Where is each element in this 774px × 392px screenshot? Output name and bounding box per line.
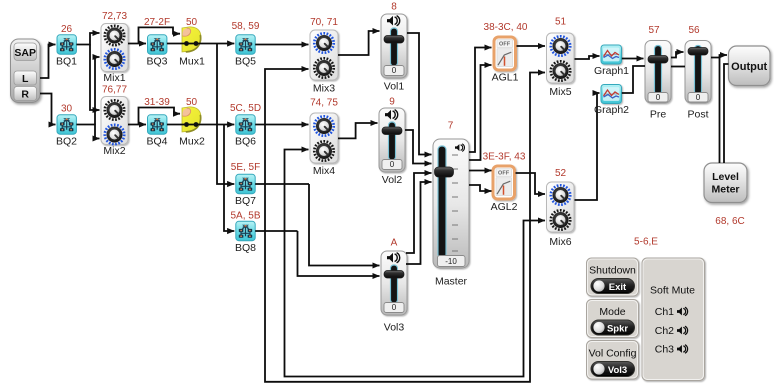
wire Pre to Post — [671, 52, 684, 58]
wire BQ8 out — [255, 230, 297, 232]
svg-text:68, 6C: 68, 6C — [715, 216, 744, 227]
wire Mix5 to Graph1 — [575, 56, 600, 59]
svg-text:Graph1: Graph1 — [594, 65, 629, 77]
svg-text:0: 0 — [696, 93, 701, 102]
wire BQ5 to Mix3 top — [255, 44, 308, 46]
svg-text:L: L — [22, 73, 29, 85]
svg-text:76,77: 76,77 — [102, 85, 127, 96]
wire BQ1 to Mix1 top — [76, 33, 99, 45]
svg-text:AGL2: AGL2 — [491, 201, 518, 213]
svg-text:72,73: 72,73 — [102, 11, 127, 22]
svg-text:Spkr: Spkr — [607, 323, 628, 334]
wire AGL1 to Mix5 top — [517, 45, 546, 47]
master slider Master — [433, 139, 469, 268]
mux Mux2 — [182, 107, 201, 132]
svg-text:50: 50 — [186, 17, 198, 28]
mixer Mix1 — [101, 24, 128, 72]
svg-text:Vol Config: Vol Config — [589, 348, 637, 360]
wire Mux1 branch down to BQ7 — [217, 44, 234, 185]
svg-text:74, 75: 74, 75 — [310, 98, 338, 109]
biquad BQ2 — [57, 115, 76, 134]
svg-text:30: 30 — [61, 104, 73, 115]
wire L to BQ1 — [40, 45, 56, 79]
svg-text:Meter: Meter — [711, 184, 739, 196]
wire BQ7 to Mix3 bottom — [265, 69, 309, 184]
slider Post — [685, 41, 711, 104]
svg-text:BQ7: BQ7 — [235, 195, 256, 207]
svg-text:Mux1: Mux1 — [179, 56, 205, 68]
svg-text:Mode: Mode — [599, 306, 625, 318]
wire Mix4 to Vol2 — [338, 123, 378, 138]
mixer Mix6 — [547, 182, 575, 232]
wire Mix1 bypass to Mux1 — [139, 27, 181, 43]
svg-text:Shutdown: Shutdown — [589, 265, 636, 277]
control panel Shutdown group — [587, 258, 639, 296]
svg-text:0: 0 — [656, 93, 661, 102]
biquad BQ7 — [236, 174, 255, 193]
graph block Graph1 — [601, 45, 622, 64]
svg-text:Graph2: Graph2 — [594, 104, 629, 116]
input selector group SAP/L/R — [11, 39, 41, 103]
wire Master to AGL1 lower — [469, 65, 492, 160]
junction dot Mux2 b — [194, 122, 199, 127]
svg-text:Vol3: Vol3 — [608, 365, 627, 376]
graph block Graph2 — [601, 85, 622, 104]
svg-text:BQ2: BQ2 — [56, 136, 77, 148]
junction dot Mux1 a — [184, 41, 189, 46]
svg-text:Output: Output — [731, 61, 767, 73]
wire Post to Output — [711, 55, 727, 58]
wire Mix2 to BQ4 — [128, 124, 146, 126]
svg-text:Vol2: Vol2 — [382, 174, 403, 186]
wire Master to AGL2 lower — [469, 185, 492, 191]
volume slider Vol1 — [381, 14, 407, 78]
wire Mix3 to Vol1 — [338, 31, 380, 55]
wire BQ4 through Mux2 to BQ6 — [167, 124, 234, 126]
wire Vol2 to Master — [405, 130, 432, 164]
svg-text:70, 71: 70, 71 — [310, 17, 338, 28]
wire R to BQ2 — [40, 94, 56, 125]
svg-text:Exit: Exit — [609, 282, 627, 293]
volume slider Vol3 — [381, 251, 407, 315]
svg-text:R: R — [21, 89, 29, 101]
svg-text:Mux2: Mux2 — [179, 136, 205, 148]
svg-text:5A, 5B: 5A, 5B — [230, 211, 260, 222]
mixer Mix4 — [310, 113, 338, 163]
svg-text:Mix4: Mix4 — [313, 165, 335, 177]
AGL block AGL1 — [494, 37, 516, 70]
svg-text:57: 57 — [648, 25, 660, 36]
svg-text:27-2F: 27-2F — [144, 17, 170, 28]
wire Mux2 branch down to BQ8 — [224, 125, 234, 232]
wire Vol3 side to Master — [406, 173, 432, 253]
svg-text:3E-3F, 43: 3E-3F, 43 — [483, 152, 526, 163]
wire Graph2 to Pre lower — [622, 66, 645, 93]
svg-text:BQ5: BQ5 — [235, 56, 256, 68]
biquad BQ4 — [148, 115, 167, 134]
biquad BQ5 — [236, 35, 255, 54]
svg-text:BQ4: BQ4 — [146, 136, 167, 148]
junction dot Mux1 b — [194, 41, 199, 46]
svg-text:Level: Level — [712, 171, 739, 183]
volume slider Vol2 — [379, 108, 405, 172]
button Output — [729, 46, 771, 86]
button Level Meter — [704, 163, 747, 203]
svg-text:Soft Mute: Soft Mute — [650, 285, 695, 297]
svg-text:BQ3: BQ3 — [146, 56, 167, 68]
wire BQ6 to Mix4 top — [255, 124, 308, 126]
wire Vol1 to Master — [407, 33, 432, 155]
wire BQ8 bus to Mix6 bottom — [285, 221, 546, 377]
svg-text:52: 52 — [555, 168, 567, 179]
control panel Vol Config group — [587, 341, 639, 380]
svg-text:-10: -10 — [445, 257, 457, 266]
svg-text:38-3C, 40: 38-3C, 40 — [484, 22, 528, 33]
wire AGL2 to Mix6 top — [516, 173, 546, 194]
svg-text:Ch2: Ch2 — [655, 325, 674, 337]
biquad BQ3 — [148, 35, 167, 54]
svg-text:BQ1: BQ1 — [56, 56, 77, 68]
wire BQ7 bus to Mix5 bottom — [265, 73, 545, 382]
control panel Soft Mute group — [642, 258, 705, 381]
svg-text:Vol1: Vol1 — [384, 81, 405, 93]
wire BQ3 through Mux1 to BQ5 — [167, 43, 234, 45]
wire BQ2 to Mix2 bottom — [76, 125, 99, 139]
wire BQ7 to Vol3 upper — [309, 184, 380, 266]
wire Output to Level Meter — [724, 64, 729, 163]
svg-text:5E, 5F: 5E, 5F — [231, 162, 260, 173]
mixer Mix2 — [101, 97, 128, 145]
svg-text:7: 7 — [448, 121, 454, 132]
wire Mix6 to Graph2 — [575, 93, 600, 200]
svg-text:Mix5: Mix5 — [549, 86, 571, 98]
svg-text:Ch3: Ch3 — [655, 344, 674, 356]
svg-text:0: 0 — [392, 303, 397, 312]
svg-text:0: 0 — [392, 66, 397, 75]
biquad BQ1 — [57, 35, 76, 54]
svg-text:Mix2: Mix2 — [103, 145, 125, 157]
junction dot Mux2 a — [184, 122, 189, 127]
mixer Mix5 — [547, 33, 575, 83]
svg-text:Vol3: Vol3 — [384, 322, 405, 334]
svg-text:50: 50 — [186, 97, 198, 108]
svg-text:Mix6: Mix6 — [549, 236, 571, 248]
svg-text:26: 26 — [61, 24, 73, 35]
svg-text:Master: Master — [435, 276, 468, 288]
svg-text:Pre: Pre — [650, 109, 667, 121]
svg-text:AGL1: AGL1 — [492, 72, 519, 84]
slider Pre — [645, 41, 671, 104]
mux Mux1 — [182, 27, 201, 52]
wire BQ1 branch to Mix2 top — [90, 45, 100, 111]
svg-text:51: 51 — [555, 17, 567, 28]
control panel Mode group — [587, 300, 639, 338]
svg-text:A: A — [391, 238, 398, 249]
wire Pre to Post lower — [671, 66, 685, 68]
biquad BQ8 — [236, 221, 255, 240]
wire BQ8 to Mix4 bottom — [285, 150, 309, 232]
svg-text:56: 56 — [688, 25, 700, 36]
wire Post branch to Level Meter — [719, 58, 721, 164]
svg-text:8: 8 — [391, 2, 397, 13]
svg-text:BQ8: BQ8 — [235, 242, 256, 254]
svg-text:Mix1: Mix1 — [103, 72, 125, 84]
svg-text:58, 59: 58, 59 — [232, 21, 260, 32]
svg-text:0: 0 — [390, 160, 395, 169]
AGL block AGL2 — [493, 166, 515, 199]
wire Mix1 to BQ3 — [128, 43, 146, 45]
biquad BQ6 — [236, 115, 255, 134]
wire Master to AGL1 upper — [469, 48, 492, 153]
wire Vol3 out to Master — [406, 182, 432, 264]
svg-text:BQ6: BQ6 — [235, 136, 256, 148]
svg-text:9: 9 — [389, 97, 395, 108]
svg-text:Ch1: Ch1 — [655, 306, 674, 318]
svg-text:5-6,E: 5-6,E — [634, 237, 658, 248]
svg-text:5C, 5D: 5C, 5D — [230, 103, 261, 114]
wire BQ2 branch to Mix1 bottom — [95, 57, 100, 125]
wire BQ7 out — [255, 183, 309, 185]
mixer Mix3 — [310, 30, 338, 80]
wire BQ8 to Vol3 lower — [298, 231, 380, 276]
svg-text:31-39: 31-39 — [144, 97, 170, 108]
wire Graph1 to Pre — [622, 58, 644, 60]
svg-text:Mix3: Mix3 — [313, 83, 335, 95]
svg-text:Post: Post — [687, 109, 708, 121]
wire Mix2 bypass to Mux2 — [139, 108, 181, 125]
svg-text:SAP: SAP — [14, 47, 36, 59]
wire Master to AGL2 upper — [469, 170, 492, 172]
